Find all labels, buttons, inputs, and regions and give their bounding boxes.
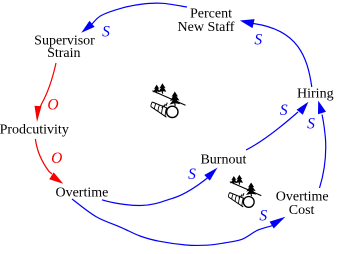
svg-text:O: O	[47, 97, 58, 114]
svg-text:S: S	[280, 102, 288, 119]
svg-text:S: S	[307, 115, 315, 132]
svg-text:Overtime: Overtime	[55, 186, 108, 201]
svg-text:S: S	[102, 23, 110, 40]
svg-text:S: S	[188, 166, 196, 183]
svg-text:New Staff: New Staff	[178, 20, 235, 35]
svg-text:Prodcutivity: Prodcutivity	[0, 123, 69, 138]
svg-text:Hiring: Hiring	[297, 86, 334, 101]
svg-text:Cost: Cost	[289, 203, 315, 218]
svg-text:Strain: Strain	[47, 46, 80, 61]
svg-text:O: O	[51, 150, 62, 167]
svg-text:S: S	[259, 207, 267, 224]
svg-text:Burnout: Burnout	[200, 153, 246, 168]
svg-text:S: S	[254, 32, 262, 49]
